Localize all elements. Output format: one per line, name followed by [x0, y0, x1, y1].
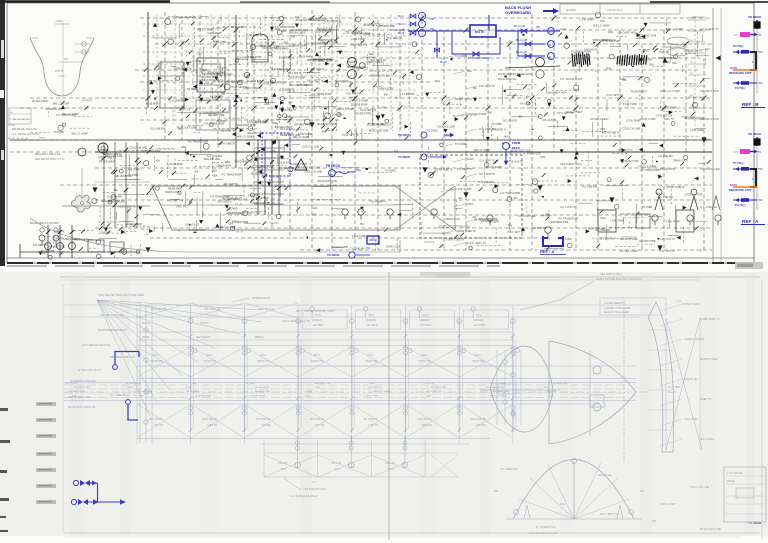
svg-text:BILGE SUCT 65A 4-7/8: BILGE SUCT 65A 4-7/8	[68, 405, 96, 409]
svg-text:F.W. HYD TK: F.W. HYD TK	[660, 249, 675, 253]
manifold valves	[256, 150, 260, 154]
seam smudge between sheets	[60, 276, 760, 278]
svg-text:C.F.W. PUMP: C.F.W. PUMP	[291, 77, 306, 79]
svg-text:STERN TUBE TK: STERN TUBE TK	[446, 239, 465, 241]
svg-text:C.F.W. PUMP: C.F.W. PUMP	[298, 134, 313, 136]
svg-text:D.B.T.DS: D.B.T.DS	[208, 425, 218, 427]
svg-text:B: B	[549, 43, 551, 47]
svg-text:PIPING DIAG: PIPING DIAG	[607, 8, 623, 12]
svg-text:SLUDGE PUMP: SLUDGE PUMP	[467, 112, 487, 116]
svg-text:125A: 125A	[212, 169, 218, 172]
svg-text:TD: TD	[758, 151, 761, 154]
bottom right data box	[724, 467, 766, 522]
svg-text:BILGE MAIN: BILGE MAIN	[168, 188, 181, 191]
svg-text:65A: 65A	[640, 27, 645, 31]
svg-text:C.F.W. PUMP: C.F.W. PUMP	[610, 221, 625, 223]
svg-text:COOL S.W. LINE: COOL S.W. LINE	[107, 201, 125, 203]
svg-text:NO.1 W.B.TK: NO.1 W.B.TK	[560, 205, 576, 209]
blue overboard drop line	[488, 15, 490, 31]
stem ticks	[648, 329, 673, 331]
lower sheet faint border	[62, 284, 64, 533]
svg-text:F.O. TRANS PUMP: F.O. TRANS PUMP	[500, 192, 520, 195]
blue bypass loop	[452, 31, 500, 54]
svg-text:D.O. SERV TK: D.O. SERV TK	[387, 38, 403, 40]
margin riser line A	[756, 146, 758, 210]
tank row2 cross braces	[137, 404, 191, 438]
svg-text:C.F.W. PUMP: C.F.W. PUMP	[455, 187, 472, 191]
svg-text:STERN TUBE TK: STERN TUBE TK	[434, 170, 453, 172]
svg-text:AFT.TNLS: AFT.TNLS	[474, 324, 485, 327]
svg-text:SLUDGE PUMP: SLUDGE PUMP	[247, 81, 264, 83]
dashed equipment box	[420, 155, 522, 238]
svg-text:F.O. TRANS PUMP: F.O. TRANS PUMP	[558, 218, 578, 221]
svg-text:STERN TUBE TK: STERN TUBE TK	[658, 58, 677, 60]
svg-text:FR SEA CHEST: FR SEA CHEST	[553, 382, 569, 385]
svg-text:65A: 65A	[221, 92, 226, 95]
svg-text:DRAIN COCK: DRAIN COCK	[455, 97, 472, 101]
svg-text:NO.1 T.B.T.US: NO.1 T.B.T.US	[258, 308, 274, 311]
svg-text:NOTE: NOTE	[730, 183, 737, 187]
blue hold line 1	[115, 352, 139, 366]
svg-text:D.B.T.DS: D.B.T.DS	[369, 425, 379, 427]
svg-text:NO.4 F.O.T. (C): NO.4 F.O.T. (C)	[228, 197, 247, 201]
svg-text:Bn-C: Bn-C	[398, 31, 404, 35]
svg-text:TO OVBD: TO OVBD	[455, 54, 467, 58]
svg-text:F: F	[330, 172, 332, 176]
svg-text:100A: 100A	[368, 53, 374, 56]
svg-text:F.O. TRANS PUMP: F.O. TRANS PUMP	[222, 174, 242, 177]
svg-text:C.F.W. PUMP: C.F.W. PUMP	[487, 167, 502, 169]
svg-text:50A: 50A	[213, 175, 218, 178]
svg-text:NO.1 W.B.TK: NO.1 W.B.TK	[503, 120, 517, 122]
svg-text:NO.1 W.B.TK: NO.1 W.B.TK	[471, 418, 486, 421]
svg-text:S.B.W.T.DS: S.B.W.T.DS	[365, 360, 378, 363]
arc side funnels	[524, 505, 530, 519]
right lower machine boxes	[598, 210, 616, 232]
margin branch 2 A	[733, 199, 757, 201]
svg-text:NOTE: NOTE	[8, 124, 15, 127]
svg-text:100A: 100A	[600, 128, 606, 131]
dark stamp strokes group2	[617, 56, 618, 64]
svg-text:TO TD(-): TO TD(-)	[735, 203, 745, 207]
svg-text:NO.1 W.B.TK: NO.1 W.B.TK	[288, 73, 302, 75]
svg-text:E: E	[298, 165, 300, 169]
svg-text:65A: 65A	[360, 223, 365, 226]
svg-text:TO DECK: TO DECK	[398, 155, 411, 159]
stern propeller	[71, 195, 90, 212]
black bracket B	[750, 52, 756, 70]
svg-text:G.S. LINE 65A: G.S. LINE 65A	[399, 93, 415, 96]
svg-text:G.S. LINE 65A: G.S. LINE 65A	[150, 127, 166, 130]
blue ref-a bracket lower	[543, 236, 563, 246]
svg-text:S.B.W.T.DS: S.B.W.T.DS	[418, 360, 431, 363]
svg-text:125A: 125A	[305, 395, 311, 398]
svg-text:65A: 65A	[467, 69, 472, 73]
svg-text:65A: 65A	[473, 87, 478, 90]
svg-text:NO.1 T.B.T.US: NO.1 T.B.T.US	[205, 308, 221, 311]
svg-text:TO OVBD: TO OVBD	[134, 396, 144, 398]
svg-text:NO.3: NO.3	[422, 314, 428, 317]
svg-text:L534: L534	[232, 220, 238, 223]
svg-text:M/E L.O. SUMP: M/E L.O. SUMP	[374, 391, 390, 393]
svg-text:S.B.W.T.DS: S.B.W.T.DS	[257, 360, 270, 363]
left vertical pipe run	[139, 305, 141, 443]
svg-text:REF : A: REF : A	[742, 219, 759, 224]
svg-text:SLUDGE PUMP: SLUDGE PUMP	[588, 229, 605, 231]
svg-text:AIR VENT PIPE: AIR VENT PIPE	[700, 89, 719, 93]
svg-text:ALLOW HTS ALLOWED: ALLOW HTS ALLOWED	[604, 311, 629, 314]
svg-text:FR SEA CHEST: FR SEA CHEST	[99, 161, 116, 164]
svg-text:F.W. HYD TK: F.W. HYD TK	[509, 162, 523, 164]
svg-text:TO DECK: TO DECK	[748, 15, 762, 19]
svg-text:AIR VENT PIPE: AIR VENT PIPE	[379, 25, 396, 28]
svg-text:40A: 40A	[382, 106, 387, 109]
blue main line through note	[408, 30, 470, 32]
dark stamp strokes group1	[572, 53, 573, 67]
orange line B	[733, 69, 757, 71]
svg-text:F.O. TRANS PUMP: F.O. TRANS PUMP	[486, 386, 505, 389]
svg-text:AIR VENT PIPE: AIR VENT PIPE	[700, 117, 719, 121]
svg-text:STERN TUBE TK: STERN TUBE TK	[173, 69, 192, 71]
main piping lines vertical	[147, 12, 149, 108]
svg-text:TO OVBD: TO OVBD	[455, 142, 467, 146]
svg-text:C.F.W. PUMP: C.F.W. PUMP	[248, 57, 263, 59]
svg-text:40A: 40A	[504, 136, 509, 139]
svg-text:C25: C25	[733, 150, 738, 154]
leader fan from margin	[97, 300, 262, 310]
svg-text:FROM: FROM	[512, 141, 521, 145]
svg-text:COOL S.W. LINE: COOL S.W. LINE	[437, 126, 455, 128]
svg-text:NO.6 W.B.TK: NO.6 W.B.TK	[203, 418, 218, 421]
svg-text:40A: 40A	[458, 197, 463, 200]
svg-text:SEA CHEST HIGH: SEA CHEST HIGH	[235, 161, 255, 164]
svg-text:G.S. LINE 65A: G.S. LINE 65A	[107, 195, 123, 198]
svg-text:BILGE MAIN 65A: BILGE MAIN 65A	[498, 78, 517, 81]
svg-text:H.F.O. SETT TK: H.F.O. SETT TK	[467, 241, 487, 245]
svg-text:Bn-C: Bn-C	[398, 14, 404, 18]
svg-text:SEA CHEST HIGH: SEA CHEST HIGH	[560, 162, 582, 166]
blue dashed hold box	[262, 133, 290, 176]
svg-text:AIR VENT PIPE: AIR VENT PIPE	[315, 382, 331, 385]
svg-text:DRAIN COCK: DRAIN COCK	[673, 160, 688, 163]
column riser pipes	[190, 318, 192, 432]
svg-text:DRAIN COCK: DRAIN COCK	[386, 245, 401, 248]
overboard line lower-left	[20, 251, 140, 253]
svg-text:TD4: TD4	[758, 51, 763, 54]
upper drawing sheet frame	[7, 3, 754, 263]
svg-text:BILGE MAIN: BILGE MAIN	[660, 167, 675, 171]
svg-text:BALLAST LINE: BALLAST LINE	[620, 237, 638, 241]
svg-text:( P&S ): ( P&S )	[58, 75, 66, 78]
svg-text:F.W. HYD TK: F.W. HYD TK	[65, 383, 78, 385]
svg-text:(CARGO): (CARGO)	[312, 319, 323, 322]
svg-text:NO.5 W.B.TK: NO.5 W.B.TK	[256, 418, 271, 421]
svg-text:TO TD(-): TO TD(-)	[733, 161, 743, 165]
svg-text:BOSN STORE: BOSN STORE	[700, 357, 718, 361]
svg-text:BILGE SUCT LINE: BILGE SUCT LINE	[318, 181, 338, 183]
svg-text:A.L.X TIDE: A.L.X TIDE	[668, 386, 680, 389]
svg-text:P.B.A.(P): P.B.A.(P)	[385, 462, 395, 465]
svg-text:NO.1 W.B.TK: NO.1 W.B.TK	[249, 35, 263, 37]
svg-text:SLUDGE PUMP: SLUDGE PUMP	[351, 104, 368, 106]
row3 riser circles	[297, 436, 299, 468]
svg-text:P.B.A.(P): P.B.A.(P)	[278, 462, 288, 465]
svg-text:M/E L.O. SUMP: M/E L.O. SUMP	[237, 137, 254, 139]
svg-text:M/E L.O. SUMP: M/E L.O. SUMP	[293, 137, 310, 139]
svg-text:W.B.TK (F): W.B.TK (F)	[684, 377, 697, 381]
main solid pipe runs	[95, 151, 712, 153]
svg-text:NO.1 TUB AFTERTUBE TANK: NO.1 TUB AFTERTUBE TANK	[296, 309, 334, 313]
svg-text:BALLAST LINE: BALLAST LINE	[247, 132, 263, 135]
svg-text:NO.1 BALLAST: NO.1 BALLAST	[500, 467, 519, 471]
svg-text:50A: 50A	[194, 171, 199, 174]
svg-text:SEA CHEST HIGH: SEA CHEST HIGH	[491, 390, 510, 393]
svg-text:50A: 50A	[72, 395, 76, 398]
svg-text:(CARGO): (CARGO)	[419, 319, 430, 322]
svg-text:C25: C25	[733, 33, 738, 37]
bottom border of upper sheet	[7, 257, 754, 259]
svg-text:C.F.W. PUMP: C.F.W. PUMP	[626, 121, 641, 123]
svg-text:C.L. KEEL PLAN: C.L. KEEL PLAN	[110, 393, 130, 397]
lower sheet paper	[0, 272, 768, 536]
dashed centerline	[64, 391, 648, 393]
fold line vertical	[388, 272, 390, 540]
control cabinet box	[197, 58, 225, 92]
svg-text:COOL S.W. LINE: COOL S.W. LINE	[301, 146, 319, 148]
svg-text:BALLAST LINE: BALLAST LINE	[317, 27, 333, 30]
double bottom tank outline	[152, 186, 400, 230]
svg-text:65A: 65A	[192, 382, 196, 385]
svg-text:FR SEA CHEST: FR SEA CHEST	[125, 382, 141, 385]
svg-text:SLUDGE PUMP: SLUDGE PUMP	[620, 159, 639, 163]
svg-text:FR DECK: FR DECK	[326, 164, 341, 168]
svg-text:H.F.O. SETT TK: H.F.O. SETT TK	[426, 391, 442, 393]
left scan edge strip	[0, 0, 5, 266]
blue riser to bypass	[436, 31, 438, 58]
svg-text:D.B.T.DS: D.B.T.DS	[261, 425, 271, 427]
svg-text:65A: 65A	[384, 93, 389, 96]
svg-text:AFT.TNLS: AFT.TNLS	[313, 324, 324, 327]
svg-text:Bn-Cn-04: Bn-Cn-04	[514, 24, 526, 28]
svg-text:COOL S.W. LINE: COOL S.W. LINE	[700, 167, 720, 171]
svg-text:AFT.TNLS: AFT.TNLS	[420, 324, 431, 327]
svg-text:STERN TUBE TK: STERN TUBE TK	[104, 154, 123, 156]
svg-text:50A: 50A	[213, 41, 218, 44]
svg-text:C D: C D	[312, 481, 317, 484]
svg-text:125A: 125A	[467, 202, 473, 206]
lower sheet bottom line	[64, 532, 760, 534]
svg-text:AIR VENT PIPE: AIR VENT PIPE	[355, 112, 372, 115]
sea chest boxes	[88, 240, 104, 252]
blue branch B	[518, 31, 545, 44]
svg-text:SEE DETAIL DWG NO. 21: SEE DETAIL DWG NO. 21	[35, 158, 65, 161]
svg-text:FIRE G.S. PUMP: FIRE G.S. PUMP	[660, 89, 680, 93]
svg-text:40A SPACE: 40A SPACE	[598, 474, 612, 477]
svg-text:TO DECK: TO DECK	[398, 133, 411, 137]
svg-text:D.O. SERV TK: D.O. SERV TK	[170, 101, 186, 103]
svg-text:M/E L.O. SUMP: M/E L.O. SUMP	[593, 26, 610, 28]
svg-text:100A: 100A	[467, 157, 473, 161]
svg-text:TO OVBD: TO OVBD	[227, 209, 238, 211]
svg-text:50A: 50A	[322, 130, 327, 133]
mid line through row1	[137, 365, 513, 367]
svg-text:65A: 65A	[508, 224, 513, 227]
tank top row cells	[137, 303, 191, 318]
svg-text:COOL S.W. LINE: COOL S.W. LINE	[518, 216, 536, 218]
svg-text:7 - 8: 7 - 8	[676, 300, 681, 303]
svg-text:H.F.O. SETT TK: H.F.O. SETT TK	[167, 201, 184, 203]
svg-text:BALLAST LINE 2-1/2: BALLAST LINE 2-1/2	[35, 152, 61, 156]
svg-text:TD4: TD4	[758, 168, 763, 171]
svg-text:F.O. TRANS PUMP: F.O. TRANS PUMP	[188, 140, 208, 143]
svg-text:1 - HOLD BILGE SUCT: 1 - HOLD BILGE SUCT	[300, 488, 327, 491]
svg-text:100A: 100A	[600, 217, 606, 220]
bow main section	[549, 341, 636, 444]
svg-text:TO OVBD: TO OVBD	[427, 131, 438, 133]
stern pipe verticals	[103, 142, 105, 228]
svg-text:OVFL. TK: OVFL. TK	[180, 110, 191, 112]
svg-text:E/R BILGE, BALLAST: E/R BILGE, BALLAST	[12, 127, 38, 131]
svg-text:125A: 125A	[620, 77, 626, 81]
lower sheet left edge marks	[0, 408, 8, 411]
svg-text:C.F.W. PUMP: C.F.W. PUMP	[623, 104, 638, 106]
svg-text:AIR VENT PIPE: AIR VENT PIPE	[639, 240, 656, 243]
tank row3 cells	[264, 452, 458, 454]
tank row1 cross braces	[137, 347, 191, 377]
svg-text:F.W. HYD TK: F.W. HYD TK	[370, 201, 384, 203]
svg-text:FR SEA CHEST: FR SEA CHEST	[590, 117, 609, 121]
svg-text:D.O. SERV TK: D.O. SERV TK	[280, 89, 296, 91]
svg-text:SLUDGE PUMP: SLUDGE PUMP	[431, 387, 447, 389]
heater vessel	[252, 34, 268, 62]
svg-text:TO OVBD: TO OVBD	[54, 132, 65, 134]
svg-text:40A: 40A	[526, 96, 531, 99]
svg-text:C.F.W. PUMP: C.F.W. PUMP	[640, 117, 656, 121]
svg-text:TO OVBD: TO OVBD	[216, 42, 227, 44]
svg-text:ABT 742 SLOP / DIRTY WK: ABT 742 SLOP / DIRTY WK	[228, 211, 261, 215]
hull deck long lines	[64, 304, 650, 306]
svg-text:COOL S.W. LINE: COOL S.W. LINE	[130, 148, 148, 150]
svg-text:65A: 65A	[652, 520, 657, 523]
svg-text:65A: 65A	[114, 189, 119, 192]
svg-text:H.F.O. SETT TK: H.F.O. SETT TK	[307, 81, 324, 83]
svg-text:SLUDGE PUMP: SLUDGE PUMP	[69, 391, 85, 393]
svg-text:NO.3: NO.3	[368, 354, 374, 357]
svg-text:NO.1 T.B.T.US: NO.1 T.B.T.US	[151, 308, 167, 311]
svg-text:NO.1 HOLD: NO.1 HOLD	[700, 437, 715, 441]
svg-text:BILGE SUCT LINE: BILGE SUCT LINE	[700, 528, 721, 531]
fore peak lens section	[490, 346, 553, 432]
pump circle pair B	[536, 58, 545, 67]
svg-text:100A: 100A	[314, 386, 320, 389]
svg-text:STERN TUBE TK: STERN TUBE TK	[455, 229, 476, 233]
svg-text:65A: 65A	[313, 214, 318, 217]
svg-text:BILGE, FIRE & G.S PUMP: BILGE, FIRE & G.S PUMP	[30, 222, 59, 225]
right inner column symbols	[694, 16, 696, 130]
svg-text:AIR VENT PIPE: AIR VENT PIPE	[115, 175, 132, 178]
svg-text:G.S. LINE 65A: G.S. LINE 65A	[479, 181, 495, 184]
svg-text:FR SEA CHEST: FR SEA CHEST	[126, 223, 143, 226]
svg-text:FOR A STORM BALLAST SUCTION: FOR A STORM BALLAST SUCTION	[596, 277, 641, 281]
svg-text:BILGE SUCT LINE: BILGE SUCT LINE	[370, 76, 390, 78]
svg-text:NO.4: NO.4	[314, 354, 320, 357]
svg-text:H.F.O. SETT TK: H.F.O. SETT TK	[557, 113, 574, 115]
svg-text:P.B.A.(P): P.B.A.(P)	[332, 462, 342, 465]
svg-text:S.B.W.T.DS: S.B.W.T.DS	[472, 360, 485, 363]
svg-text:M/E L.O. SUMP: M/E L.O. SUMP	[72, 134, 89, 136]
instrument circles row	[342, 209, 348, 215]
svg-text:C.F.W. PUMP: C.F.W. PUMP	[352, 236, 367, 238]
svg-text:BILGE SUCT LINE: BILGE SUCT LINE	[369, 131, 389, 133]
svg-text:Bn-Cn-06: Bn-Cn-06	[516, 50, 528, 54]
svg-text:COOL S.W. LINE: COOL S.W. LINE	[304, 172, 322, 174]
svg-text:40A: 40A	[288, 102, 293, 105]
svg-text:D.B.T.DS: D.B.T.DS	[154, 425, 164, 427]
svg-text:100A: 100A	[649, 64, 655, 67]
blue NOTE box	[470, 25, 496, 37]
ink blob specks	[386, 39, 387, 40]
svg-text:D.O. SERV TK: D.O. SERV TK	[33, 245, 49, 247]
blue supply line lower	[71, 499, 76, 504]
svg-text:H.F.O. SETT TK: H.F.O. SETT TK	[325, 22, 342, 24]
svg-text:NO.1 W.B.TK: NO.1 W.B.TK	[543, 120, 557, 122]
svg-text:NO.1: NO.1	[475, 354, 481, 357]
svg-text:NO.1 W.B.TK: NO.1 W.B.TK	[217, 202, 231, 204]
svg-text:AFT.TNLS: AFT.TNLS	[367, 324, 378, 327]
svg-text:DRAIN COCK: DRAIN COCK	[446, 218, 461, 221]
svg-text:TO DECK: TO DECK	[327, 253, 340, 257]
svg-text:NO.5: NO.5	[260, 354, 266, 357]
svg-text:TD2: TD2	[366, 247, 371, 250]
svg-text:REF : B: REF : B	[742, 102, 759, 107]
svg-text:FR SEA CHEST: FR SEA CHEST	[631, 90, 648, 93]
svg-text:S-1254: S-1254	[566, 8, 576, 12]
note box top right lower sheet	[600, 298, 666, 315]
vertical manifold center-left	[257, 140, 259, 215]
blue branch C	[512, 30, 545, 32]
svg-text:D.O. SERV TK: D.O. SERV TK	[457, 169, 473, 171]
aux machine box lower	[196, 100, 230, 130]
svg-text:TD: TD	[758, 34, 761, 37]
svg-text:STERN TUBE TK: STERN TUBE TK	[117, 206, 136, 208]
svg-text:F.O. TRANS PUMP: F.O. TRANS PUMP	[640, 169, 660, 172]
arc end circles	[513, 509, 518, 514]
svg-text:F.O. TRANS PUMP: F.O. TRANS PUMP	[205, 122, 225, 125]
svg-text:(CARGO): (CARGO)	[366, 319, 377, 322]
svg-text:H.F.O. SETT TK: H.F.O. SETT TK	[656, 115, 673, 117]
svg-text:40A: 40A	[545, 213, 550, 216]
svg-text:F.O. TRANS PUMP: F.O. TRANS PUMP	[312, 93, 332, 96]
hull section dimension lines	[62, 20, 64, 96]
svg-text:NO.1 W.B.TK: NO.1 W.B.TK	[280, 129, 294, 131]
right leader lines	[660, 304, 682, 311]
fine sub-grid upper-left	[156, 15, 158, 114]
svg-text:40A: 40A	[295, 16, 300, 19]
bow thruster motor	[593, 366, 601, 374]
svg-text:100A: 100A	[128, 386, 134, 389]
dense text band rows	[64, 384, 630, 386]
svg-text:F.O. TRANS PUMP: F.O. TRANS PUMP	[313, 59, 333, 62]
svg-text:SLUDGE PUMP: SLUDGE PUMP	[74, 387, 90, 389]
bow centerline dashed	[623, 300, 625, 462]
svg-text:C.F.W. PUMP: C.F.W. PUMP	[207, 33, 222, 35]
gauge pair left	[39, 235, 45, 241]
svg-text:TO OVBD: TO OVBD	[642, 207, 653, 209]
svg-text:FIRE G.S. PUMP: FIRE G.S. PUMP	[336, 109, 354, 111]
svg-text:TO OVBD: TO OVBD	[491, 124, 502, 126]
blue branch F	[518, 44, 545, 56]
svg-text:AIR VENT PIPE 65A: AIR VENT PIPE 65A	[100, 313, 124, 317]
